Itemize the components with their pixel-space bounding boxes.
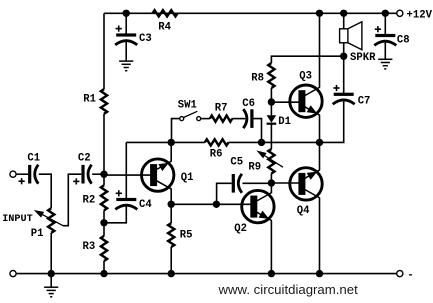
resistor R5 [168, 223, 174, 247]
label +12V [407, 10, 433, 22]
label C5 [230, 156, 243, 168]
resistor R3 [101, 236, 107, 261]
wire R8 to D1 [270, 88, 272, 115]
label Q4 [297, 205, 310, 217]
label C8 [397, 34, 410, 46]
wire Q1 emitter up [170, 142, 172, 161]
junction top rail / Q3 collector [316, 10, 323, 17]
svg-text:+12V: +12V [407, 10, 433, 22]
label R2 [83, 194, 96, 206]
label C6 [242, 98, 255, 110]
resistor R6 [205, 139, 229, 145]
resistor R1 [101, 89, 107, 114]
wire D1 to R9 (crosses mid wire) [270, 124, 272, 149]
wire Q4 emitter up [319, 142, 321, 170]
junction speaker / R8 / C7 [340, 53, 347, 60]
junction R9 / C5 / Q2 collector / Q4 base [268, 179, 275, 186]
wire C6 drop to mid wire [254, 119, 262, 143]
label C1 [27, 153, 40, 165]
label R6 [210, 148, 223, 160]
label C7 [358, 95, 371, 107]
capacitor C5 [232, 174, 242, 193]
svg-text:Q3: Q3 [299, 71, 312, 83]
svg-text:R7: R7 [215, 103, 228, 115]
svg-text:C2: C2 [78, 153, 91, 165]
junction mid wire / Q3 Q4 emitters / C7 [316, 139, 323, 146]
capacitor C2 [73, 165, 91, 185]
adjust arrow R9 [256, 150, 283, 167]
wire C7 top [343, 56, 345, 93]
svg-text:C4: C4 [139, 199, 152, 211]
wire Q3 collector to top rail [319, 13, 321, 87]
label Q1 [181, 172, 194, 184]
terminal minus [397, 271, 403, 277]
wire R7 to C6 [232, 118, 245, 120]
wire Q1 collector down [170, 189, 172, 205]
svg-text:R8: R8 [251, 73, 264, 85]
junction Q2 base / C5 tap [213, 201, 220, 208]
diode D1 [267, 115, 277, 123]
wire Q2 emitter down [270, 221, 272, 274]
terminal ground left [10, 271, 16, 277]
ground below C3 [119, 61, 133, 71]
wire mid to C4 corner [126, 141, 171, 143]
wire C4 bottom to R2/R3 node [104, 204, 126, 223]
wire C3 top [125, 13, 127, 34]
wire R3 to ground rail [103, 261, 105, 274]
svg-text:SW1: SW1 [178, 100, 197, 112]
wire SW1 to R7 [201, 118, 210, 120]
resistor R4 [153, 10, 178, 16]
wire C1 to P1 [39, 174, 51, 208]
label Q2 [234, 223, 247, 235]
capacitor C7 [333, 85, 355, 104]
svg-text:Q4: Q4 [297, 205, 310, 217]
wire Q2 base [216, 203, 250, 205]
svg-text:SPKR: SPKR [350, 52, 376, 64]
wire C8 top [384, 13, 386, 35]
wire C3 to ground [125, 39, 127, 61]
label D1 [278, 116, 291, 128]
svg-text:-: - [407, 269, 413, 281]
terminal INPUT [10, 171, 16, 177]
wire top supply rail [104, 12, 397, 14]
wire Q3 emitter down [319, 115, 321, 142]
junction top rail / speaker [340, 10, 347, 17]
wire R2 to R3 [103, 210, 105, 236]
label R3 [83, 241, 96, 253]
junction C6 / mid wire [258, 139, 265, 146]
wire C5 to junction [243, 182, 272, 184]
junction node C2/R1/R2 [100, 171, 107, 178]
svg-text:C5: C5 [230, 156, 243, 168]
watermark www.circuitdiagram.net [218, 282, 359, 297]
svg-text:D1: D1 [278, 116, 291, 128]
junction top rail / C3 [123, 10, 130, 17]
label R9 [248, 161, 261, 173]
ground below C8 [378, 59, 392, 69]
ground below bottom rail [44, 287, 58, 297]
wire C7 bottom to mid junction [320, 99, 344, 142]
wire Q2 collector up [270, 183, 272, 193]
wire R1 to C2 node [103, 114, 105, 186]
switch SW1 [180, 111, 201, 120]
svg-text:C8: C8 [397, 34, 410, 46]
junction bottom rail / Q2 emitter [268, 270, 275, 277]
transistor Q3 [290, 85, 322, 117]
wiper arrow P1 [34, 210, 63, 226]
wire Q1 base [104, 174, 150, 176]
transistor Q4 [290, 168, 322, 200]
svg-text:C3: C3 [139, 33, 152, 45]
wire C2 to node [92, 173, 104, 175]
label R7 [215, 103, 228, 115]
wire C8 to ground [384, 40, 386, 59]
svg-text:C7: C7 [358, 95, 371, 107]
wire Q4 collector down [319, 198, 321, 274]
wire P1 to ground rail [50, 233, 52, 274]
svg-text:C6: C6 [242, 98, 255, 110]
label minus [407, 269, 413, 281]
label P1 [31, 228, 44, 240]
svg-text:R9: R9 [248, 161, 261, 173]
svg-text:R2: R2 [83, 194, 96, 206]
capacitor C3 [115, 26, 137, 45]
wire Q3 base [271, 101, 298, 103]
potentiometer P1 [48, 208, 54, 233]
svg-text:R1: R1 [83, 94, 96, 106]
wire R5 top [170, 204, 172, 223]
svg-text:Q1: Q1 [181, 172, 194, 184]
junction R8 / D1 / Q3 base [268, 98, 275, 105]
junction bottom rail / R5 [168, 270, 175, 277]
wire R8 top [271, 56, 343, 63]
label R8 [251, 73, 264, 85]
wire C2 left drop to wiper [63, 174, 81, 226]
label SPKR [350, 52, 376, 64]
resistor R7 [210, 116, 232, 122]
svg-text:R3: R3 [83, 241, 96, 253]
label R4 [158, 22, 171, 34]
transistor Q1 [142, 159, 174, 191]
wire ground stem bottom-left [50, 274, 52, 288]
label R1 [83, 94, 96, 106]
capacitor C6 [243, 109, 253, 128]
label Q3 [299, 71, 312, 83]
wire mid right segment [229, 141, 320, 143]
capacitor C1 [19, 165, 39, 185]
label C2 [78, 153, 91, 165]
svg-text:C1: C1 [27, 153, 40, 165]
junction Q1 emitter / SW1 / R6 [168, 139, 175, 146]
wire SW1 left [172, 119, 180, 143]
junction Q1 collector / R5 / Q2 base wire [168, 201, 175, 208]
label SW1 [178, 100, 197, 112]
transistor Q2 [242, 190, 274, 222]
label R5 [180, 229, 193, 241]
svg-text:INPUT: INPUT [2, 214, 33, 225]
rheostat R9 [268, 149, 274, 174]
junction node R2/R3/C4 [100, 219, 107, 226]
wire Q4 base [271, 182, 298, 184]
terminal +12V [397, 10, 403, 16]
wire bottom ground rail [16, 273, 397, 275]
label C4 [139, 199, 152, 211]
resistor R8 [268, 63, 274, 88]
wire speaker bottom [343, 43, 345, 56]
label C3 [139, 33, 152, 45]
wire C4 top [125, 142, 127, 198]
wire left column top [103, 13, 105, 89]
svg-text:P1: P1 [31, 228, 44, 240]
wire C5 tap up [217, 183, 232, 204]
svg-text:R4: R4 [158, 22, 171, 34]
svg-text:R6: R6 [210, 148, 223, 160]
label INPUT [2, 214, 33, 225]
svg-text:www. circuitdiagram.net: www. circuitdiagram.net [218, 282, 359, 297]
junction bottom rail / P1 [48, 270, 55, 277]
svg-text:R5: R5 [180, 229, 193, 241]
speaker SPKR [340, 22, 362, 50]
junction bottom rail / Q4 collector [316, 270, 323, 277]
capacitor C8 [374, 26, 396, 45]
wire R9 bottom [270, 174, 272, 184]
wire Q1 to Q2 base [171, 203, 216, 205]
resistor R2 [101, 185, 107, 210]
capacitor C4 [115, 190, 137, 209]
junction top rail / C8 [382, 10, 389, 17]
junction bottom rail / R3 [100, 270, 107, 277]
wire input to C1 [16, 173, 28, 175]
svg-text:Q2: Q2 [234, 223, 247, 235]
wire R5 bottom [170, 247, 172, 274]
wire speaker top [343, 13, 345, 29]
wire mid left segment [171, 141, 205, 143]
